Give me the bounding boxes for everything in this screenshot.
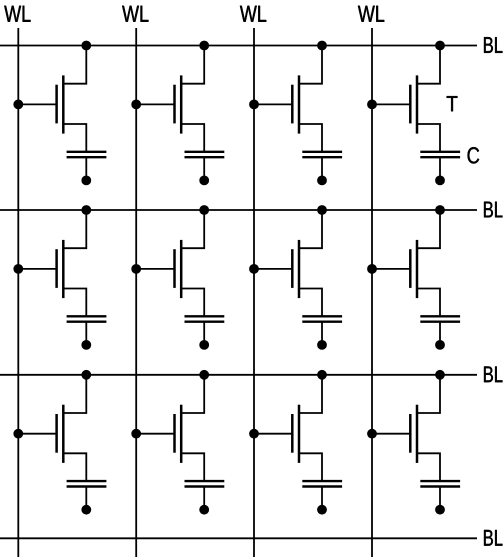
wire: source lead of transistor R3C2 (channel to capacitor)	[181, 453, 204, 481]
wire: bit line BL2 (horizontal)	[0, 209, 477, 211]
wire: word line WL4 (vertical)	[371, 28, 373, 557]
node: junction dot, gate of R3C4 on WL4	[367, 429, 377, 439]
wire: source lead of transistor R2C2 (channel to capacitor)	[181, 289, 204, 317]
wire: drain lead of transistor R3C1 (from BL3 down to channel)	[63, 375, 86, 413]
wire: capacitor R2C2 lead to common plate terminal	[203, 322, 205, 345]
node: junction dot, gate of R1C2 on WL2	[131, 100, 141, 110]
wire: source lead of transistor R3C4 (channel to capacitor)	[417, 453, 440, 481]
capacitor R3C1 (storage capacitor plates)	[67, 481, 107, 486]
label: BL (bit line 2)	[484, 202, 502, 218]
capacitor R3C2 (storage capacitor plates)	[185, 481, 225, 486]
capacitor R3C3 (storage capacitor plates)	[302, 481, 342, 486]
wire: capacitor R3C3 lead to common plate terminal	[321, 487, 323, 510]
wire: capacitor R1C1 lead to common plate terminal	[85, 157, 87, 180]
node: junction dot, drain of R2C4 on BL2	[435, 205, 445, 215]
node: junction dot, gate of R3C1 on WL1	[13, 429, 23, 439]
wire: drain lead of transistor R3C2 (from BL3 down to channel)	[181, 375, 204, 413]
capacitor R2C3 (storage capacitor plates)	[302, 316, 342, 321]
wire: gate lead of transistor R1C4 (from WL4 to gate)	[372, 103, 410, 105]
transistor R2C3 (access MOSFET: gate bar and channel bar)	[292, 240, 299, 298]
node: junction dot, drain of R1C2 on BL1	[199, 41, 209, 51]
capacitor R3C4 (storage capacitor plates)	[420, 481, 460, 486]
wire: capacitor R2C1 lead to common plate terminal	[85, 322, 87, 345]
wire: gate lead of transistor R2C2 (from WL2 to gate)	[136, 268, 174, 270]
node: junction dot, drain of R3C4 on BL3	[435, 370, 445, 380]
node: junction dot, gate of R2C1 on WL1	[13, 264, 23, 274]
label: WL (word line 1)	[4, 6, 30, 22]
node: junction dot, gate of R3C3 on WL3	[249, 429, 259, 439]
node: common-plate terminal dot of capacitor R1C2	[199, 176, 209, 186]
node: junction dot, drain of R2C2 on BL2	[199, 205, 209, 215]
wire: source lead of transistor R2C3 (channel to capacitor)	[299, 289, 322, 317]
wire: source lead of transistor R3C3 (channel to capacitor)	[299, 453, 322, 481]
capacitor R2C1 (storage capacitor plates)	[67, 316, 107, 321]
wire: word line WL2 (vertical)	[135, 28, 137, 557]
wire: capacitor R1C4 lead to common plate terminal	[439, 157, 441, 180]
transistor R3C3 (access MOSFET: gate bar and channel bar)	[292, 405, 299, 463]
wire: source lead of transistor R1C2 (channel to capacitor)	[181, 124, 204, 152]
node: junction dot, drain of R3C2 on BL3	[199, 370, 209, 380]
node: common-plate terminal dot of capacitor R2C4	[435, 340, 445, 350]
capacitor R2C4 (storage capacitor plates)	[420, 316, 460, 321]
wire: capacitor R3C2 lead to common plate terminal	[203, 487, 205, 510]
capacitor R1C2 (storage capacitor plates)	[185, 152, 225, 157]
wire: gate lead of transistor R3C2 (from WL2 to gate)	[136, 433, 174, 435]
wire: drain lead of transistor R2C1 (from BL2 down to channel)	[63, 210, 86, 248]
wire: drain lead of transistor R1C3 (from BL1 down to channel)	[299, 46, 322, 84]
wire: drain lead of transistor R3C3 (from BL3 down to channel)	[299, 375, 322, 413]
wire: gate lead of transistor R1C1 (from WL1 to gate)	[18, 103, 56, 105]
wire: capacitor R2C3 lead to common plate terminal	[321, 322, 323, 345]
wire: source lead of transistor R3C1 (channel to capacitor)	[63, 453, 86, 481]
node: junction dot, gate of R1C4 on WL4	[367, 100, 377, 110]
wire: source lead of transistor R1C1 (channel to capacitor)	[63, 124, 86, 152]
wire: drain lead of transistor R2C2 (from BL2 down to channel)	[181, 210, 204, 248]
wire: capacitor R2C4 lead to common plate terminal	[439, 322, 441, 345]
transistor R3C1 (access MOSFET: gate bar and channel bar)	[57, 405, 64, 463]
capacitor R2C2 (storage capacitor plates)	[185, 316, 225, 321]
label: WL (word line 2)	[122, 6, 148, 22]
label: BL (bit line 4)	[484, 530, 502, 546]
wire: gate lead of transistor R2C1 (from WL1 to gate)	[18, 268, 56, 270]
wire: drain lead of transistor R3C4 (from BL3 down to channel)	[417, 375, 440, 413]
label: BL (bit line 3)	[484, 366, 502, 382]
node: junction dot, drain of R1C1 on BL1	[81, 41, 91, 51]
node: common-plate terminal dot of capacitor R2C2	[199, 340, 209, 350]
label: C (cell storage capacitor)	[468, 147, 480, 163]
node: junction dot, drain of R3C1 on BL3	[81, 370, 91, 380]
node: junction dot, drain of R1C4 on BL1	[435, 41, 445, 51]
transistor R2C2 (access MOSFET: gate bar and channel bar)	[175, 240, 182, 298]
capacitor R1C3 (storage capacitor plates)	[302, 152, 342, 157]
wire: drain lead of transistor R2C4 (from BL2 down to channel)	[417, 210, 440, 248]
node: junction dot, gate of R2C2 on WL2	[131, 264, 141, 274]
capacitor R1C1 (storage capacitor plates)	[67, 152, 107, 157]
wire: capacitor R3C4 lead to common plate terminal	[439, 487, 441, 510]
wire: bit line BL1 (horizontal)	[0, 45, 477, 47]
node: junction dot, gate of R2C3 on WL3	[249, 264, 259, 274]
node: common-plate terminal dot of capacitor R1C4	[435, 176, 445, 186]
wire: capacitor R1C3 lead to common plate terminal	[321, 157, 323, 180]
wire: capacitor R3C1 lead to common plate terminal	[85, 487, 87, 510]
node: common-plate terminal dot of capacitor R3C2	[199, 505, 209, 515]
node: common-plate terminal dot of capacitor R3C4	[435, 505, 445, 515]
node: common-plate terminal dot of capacitor R3C1	[81, 505, 91, 515]
node: common-plate terminal dot of capacitor R2C1	[81, 340, 91, 350]
wire: gate lead of transistor R3C1 (from WL1 to gate)	[18, 433, 56, 435]
transistor R2C1 (access MOSFET: gate bar and channel bar)	[57, 240, 64, 298]
transistor R2C4 (access MOSFET: gate bar and channel bar)	[410, 240, 417, 298]
transistor R1C2 (access MOSFET: gate bar and channel bar)	[175, 75, 182, 133]
node: junction dot, gate of R1C1 on WL1	[13, 100, 23, 110]
label: BL (bit line 1)	[484, 37, 502, 53]
wire: source lead of transistor R2C1 (channel to capacitor)	[63, 289, 86, 317]
wire: gate lead of transistor R2C4 (from WL4 to gate)	[372, 268, 410, 270]
label: WL (word line 4)	[358, 6, 384, 22]
node: junction dot, drain of R3C3 on BL3	[317, 370, 327, 380]
node: junction dot, gate of R1C3 on WL3	[249, 100, 259, 110]
node: common-plate terminal dot of capacitor R1C3	[317, 176, 327, 186]
node: common-plate terminal dot of capacitor R1C1	[81, 176, 91, 186]
wire: drain lead of transistor R2C3 (from BL2 down to channel)	[299, 210, 322, 248]
wire: gate lead of transistor R1C2 (from WL2 to gate)	[136, 103, 174, 105]
wire: source lead of transistor R1C3 (channel to capacitor)	[299, 124, 322, 152]
transistor R1C3 (access MOSFET: gate bar and channel bar)	[292, 75, 299, 133]
node: common-plate terminal dot of capacitor R2C3	[317, 340, 327, 350]
wire: gate lead of transistor R2C3 (from WL3 to gate)	[254, 268, 292, 270]
node: junction dot, gate of R3C2 on WL2	[131, 429, 141, 439]
wire: source lead of transistor R1C4 (channel to capacitor)	[417, 124, 440, 152]
node: junction dot, drain of R2C1 on BL2	[81, 205, 91, 215]
transistor R1C1 (access MOSFET: gate bar and channel bar)	[57, 75, 64, 133]
wire: bit line BL3 (horizontal)	[0, 374, 477, 376]
node: common-plate terminal dot of capacitor R3C3	[317, 505, 327, 515]
wire: word line WL3 (vertical)	[253, 28, 255, 557]
wire: capacitor R1C2 lead to common plate terminal	[203, 157, 205, 180]
transistor R1C4 (access MOSFET: gate bar and channel bar)	[410, 75, 417, 133]
wire: source lead of transistor R2C4 (channel to capacitor)	[417, 289, 440, 317]
label: WL (word line 3)	[240, 6, 266, 22]
wire: drain lead of transistor R1C4 (from BL1 down to channel)	[417, 46, 440, 84]
node: junction dot, drain of R2C3 on BL2	[317, 205, 327, 215]
label: T (cell transistor)	[447, 96, 458, 111]
node: junction dot, gate of R2C4 on WL4	[367, 264, 377, 274]
wire: gate lead of transistor R1C3 (from WL3 to gate)	[254, 103, 292, 105]
transistor R3C2 (access MOSFET: gate bar and channel bar)	[175, 405, 182, 463]
wire: drain lead of transistor R1C2 (from BL1 down to channel)	[181, 46, 204, 84]
node: junction dot, drain of R1C3 on BL1	[317, 41, 327, 51]
wire: gate lead of transistor R3C4 (from WL4 to gate)	[372, 433, 410, 435]
wire: gate lead of transistor R3C3 (from WL3 to gate)	[254, 433, 292, 435]
wire: word line WL1 (vertical)	[17, 28, 19, 557]
transistor R3C4 (access MOSFET: gate bar and channel bar)	[410, 405, 417, 463]
capacitor R1C4 (storage capacitor plates)	[420, 152, 460, 157]
wire: bit line BL4 (horizontal)	[0, 537, 477, 539]
wire: drain lead of transistor R1C1 (from BL1 down to channel)	[63, 46, 86, 84]
